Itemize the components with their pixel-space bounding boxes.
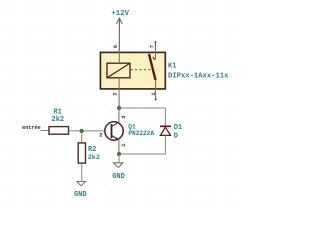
wire R1 to base — [69, 130, 106, 132]
wire down to diode cathode — [164, 108, 166, 126]
relay pin 1 — [150, 80, 157, 100]
relay switch blade — [149, 54, 156, 80]
ground left — [74, 182, 87, 199]
svg-text:2k2: 2k2 — [52, 116, 65, 124]
wire junction down to R2 — [81, 131, 83, 143]
node A junction at collector — [117, 106, 121, 110]
wire diode anode down — [164, 135, 166, 154]
ground middle — [112, 163, 125, 181]
wire collector to diode branch — [119, 107, 165, 109]
relay pin 6 — [112, 42, 119, 63]
svg-text:2k2: 2k2 — [88, 154, 100, 162]
relay coil — [107, 63, 130, 78]
relay fixed contact arc — [153, 57, 155, 59]
svg-text:D: D — [174, 132, 178, 140]
relay dashed actuator line — [131, 69, 152, 71]
svg-text:R2: R2 — [88, 146, 96, 154]
wire diode to emitter junction — [119, 153, 165, 155]
svg-text:PN2222A: PN2222A — [128, 130, 154, 137]
svg-text:2: 2 — [99, 131, 102, 138]
wire — [118, 42, 120, 52]
transistor pin 3 (collector) — [119, 108, 127, 123]
svg-text:entrée: entrée — [22, 124, 42, 131]
svg-text:2: 2 — [111, 92, 118, 95]
wire entree to R1 — [41, 130, 50, 132]
svg-text:K1: K1 — [168, 63, 176, 71]
svg-text:DIPxx-1Axx-11x: DIPxx-1Axx-11x — [168, 72, 229, 80]
wire emitter junction to ground — [118, 154, 120, 163]
svg-text:7: 7 — [149, 45, 156, 48]
node B junction base/R2 — [80, 129, 84, 133]
resistor R1 — [49, 127, 69, 135]
transistor pin 1 (emitter) — [119, 140, 127, 154]
svg-text:+12V: +12V — [111, 10, 129, 18]
power +12V — [111, 10, 129, 42]
svg-text:GND: GND — [112, 173, 125, 181]
relay pin 7 — [149, 41, 157, 59]
node C junction emitter — [117, 152, 121, 156]
resistor R2 — [78, 143, 85, 163]
diode D1 — [160, 126, 171, 135]
svg-text:D1: D1 — [174, 124, 182, 132]
transistor Q1 — [105, 122, 123, 140]
svg-text:GND: GND — [74, 191, 87, 199]
relay pin 2 — [111, 78, 119, 108]
relay K1 — [100, 52, 165, 89]
wire R2 to ground — [81, 163, 83, 181]
svg-text:6: 6 — [112, 45, 119, 48]
